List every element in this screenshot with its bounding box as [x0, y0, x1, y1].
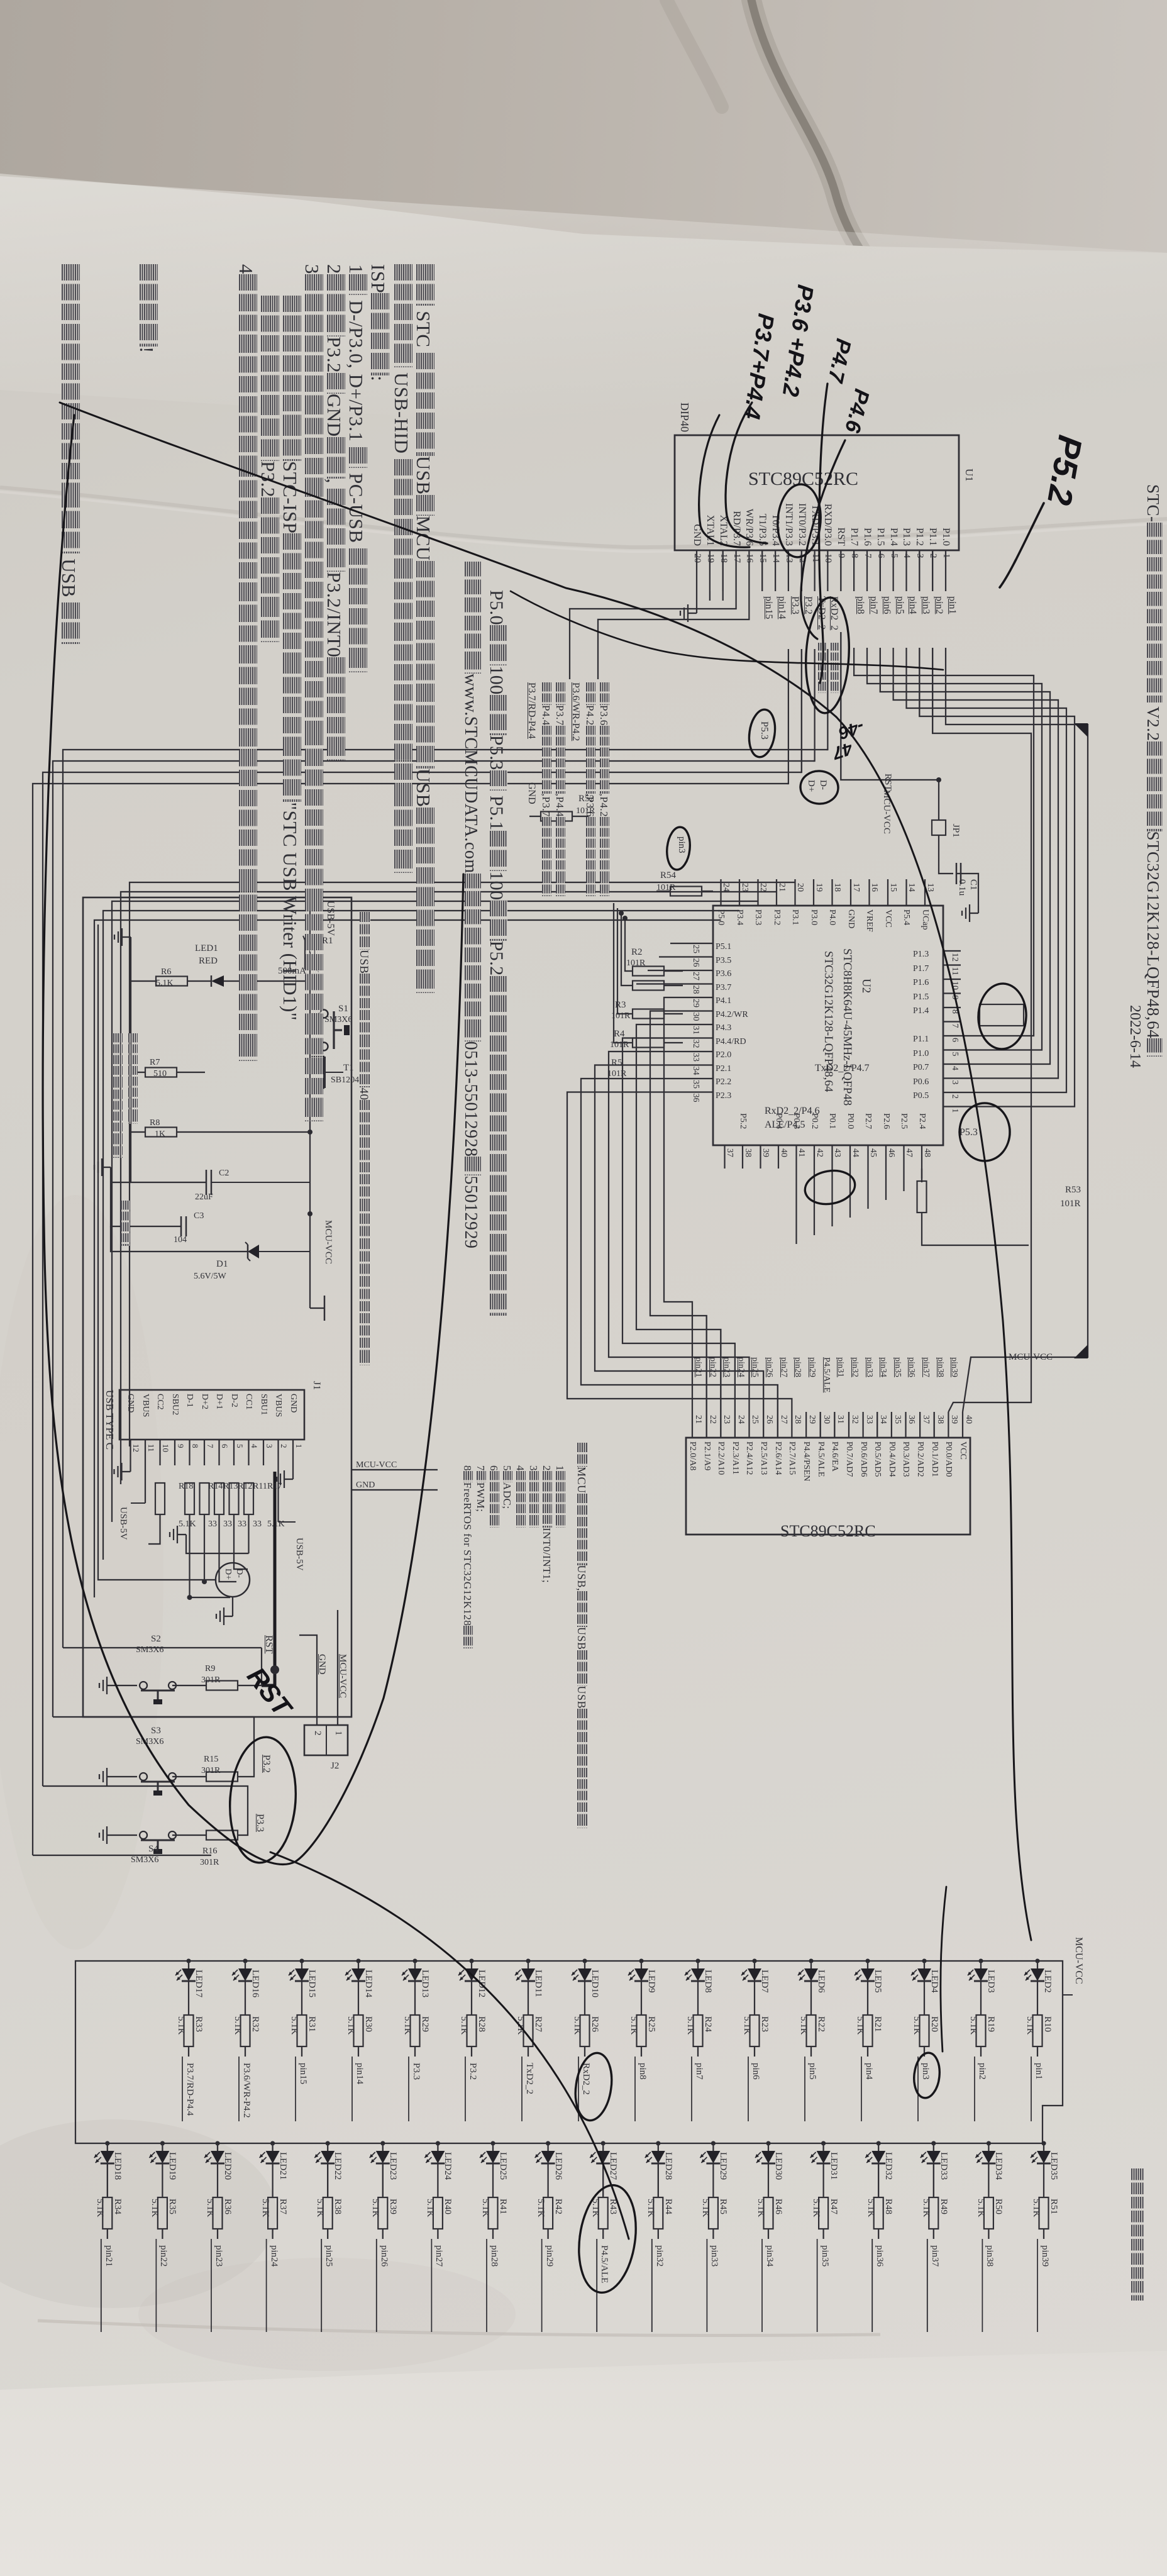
- node pin23 led: [213, 2245, 224, 2267]
- node pin23: [211, 2239, 212, 2332]
- node TxD2_2 led: [524, 2063, 534, 2094]
- capacitor C2 22uF: [211, 1182, 310, 1183]
- LED3 label: [985, 1970, 996, 1993]
- R12 label: [238, 1482, 253, 1492]
- features item 8: [461, 1465, 473, 1648]
- node MCU-VCC leds: [1073, 1937, 1084, 1984]
- U2 pin12: [949, 953, 960, 962]
- node USB-5V J1b: [118, 1507, 128, 1540]
- pen oval around RxD2_2/TxD2_2 nets: [803, 596, 852, 714]
- resistor R9 301R: [206, 1681, 238, 1690]
- J1 refdes: [311, 1381, 322, 1390]
- LED1 label: [195, 943, 218, 954]
- U2 pin28: [690, 985, 700, 994]
- resistor R40 5.1K: [433, 2197, 443, 2229]
- resistor R11 33 on D-2: [230, 1483, 239, 1514]
- LED LED15: [299, 1958, 304, 1963]
- U2 pin6: [949, 1038, 960, 1042]
- box B pins 21-40 stubs: [962, 1412, 963, 1438]
- node pin39: [1037, 2239, 1038, 2332]
- mcu U1 part B box STC89C52RC pins21-40: [686, 1438, 970, 1535]
- node pin1 led: [1033, 2063, 1044, 2080]
- U2 pin16: [870, 883, 880, 892]
- R18 label: [179, 1482, 194, 1492]
- node pin3 led: [920, 2063, 931, 2080]
- node MCU-VCC power: [323, 1220, 333, 1264]
- J1 package label: [103, 1390, 116, 1450]
- pen wavy underline P5.0 line: [511, 591, 943, 670]
- U1 pin3 label P1.2: [914, 528, 925, 546]
- wire P3.3 net: [238, 1814, 248, 1835]
- resistor R53 101R: [921, 1169, 922, 1179]
- thick RST wire: [262, 1472, 275, 1685]
- resistor R18 5.1K on CC2: [155, 1483, 165, 1514]
- box B pin26 label: [758, 1441, 768, 1475]
- transistor T1 SB1204: [323, 1057, 326, 1088]
- node P5.3 label: [758, 721, 770, 740]
- node pin33 led: [709, 2245, 719, 2267]
- jumper JP1: [932, 820, 946, 835]
- T1 label: [343, 1063, 354, 1074]
- resistor R3 101R: [633, 981, 664, 991]
- node pin29: [541, 2239, 543, 2332]
- R15 label: [204, 1755, 218, 1765]
- handwriting P3.7+P4.4: [738, 312, 779, 421]
- connector J1 USB TYPE C box: [119, 1390, 304, 1440]
- J1 pin2 VBUS: [274, 1394, 284, 1417]
- U2 pin8: [949, 1009, 960, 1014]
- label full color LED title: [1128, 2168, 1144, 2301]
- junction dots D lines: [202, 1579, 207, 1584]
- node GND stub: [356, 1480, 375, 1491]
- node pin27 led: [433, 2245, 444, 2267]
- pen oval around RxD2_2 U2: [802, 1167, 858, 1207]
- LED LED24: [436, 2141, 440, 2145]
- U2 pin44: [850, 1148, 860, 1157]
- box B pin36 label: [901, 1441, 911, 1477]
- node pin37 led: [929, 2245, 940, 2267]
- U2 pin41: [797, 1148, 807, 1157]
- wire MCU-VCC rail LED row 1: [88, 1961, 1063, 1995]
- bus X1 four vertical wires: [63, 750, 827, 1648]
- R26 label: [589, 2016, 600, 2032]
- R40 label: [442, 2199, 453, 2214]
- paper light band: [0, 176, 1167, 465]
- resistor R34 5.1K: [102, 2197, 112, 2229]
- node pin35 boxB: [892, 1357, 902, 1377]
- node USB-5V J1a: [294, 1538, 304, 1571]
- R19 label: [985, 2016, 996, 2032]
- resistor R52 101R: [541, 812, 572, 821]
- node P3.2: [465, 2057, 466, 2121]
- switch S1 SM3X6: [310, 1013, 319, 1014]
- R41 label: [497, 2199, 508, 2214]
- node pin21 led: [103, 2245, 114, 2267]
- wire U1 pin2 loop to box B pin39: [932, 648, 1031, 1412]
- U2 pin45: [868, 1148, 878, 1157]
- pen stroke big loop right: [296, 874, 463, 1862]
- features item 3: [527, 1465, 539, 1528]
- box B pin24 label: [730, 1441, 740, 1475]
- LED32 label: [883, 2152, 893, 2180]
- resistor R50 5.1K: [984, 2197, 993, 2229]
- node pin24 boxB: [736, 1357, 746, 1377]
- resistor R6 5.1K: [156, 977, 187, 986]
- LED LED3: [978, 1958, 983, 1963]
- U2 pin21: [777, 883, 787, 892]
- U2 pin18: [832, 883, 843, 892]
- node P3.6/WR-P4.2 led: [241, 2063, 252, 2118]
- U1 package DIP40: [678, 402, 691, 432]
- instructions line8: [257, 296, 280, 642]
- R34 label: [112, 2199, 123, 2214]
- LED15 label: [306, 1970, 317, 1997]
- features item 1: [553, 1465, 566, 1528]
- node pin22 led: [158, 2245, 169, 2267]
- U1 pin14 label T0/P3.4: [770, 514, 781, 546]
- instructions line1: [412, 264, 435, 993]
- wire from D circle to bus: [98, 924, 216, 1580]
- wire bundle U2 right pins loop to box B: [921, 1169, 922, 1182]
- resistor R36 5.1K: [213, 2197, 223, 2229]
- LED LED14: [356, 1958, 360, 1963]
- LED LED22: [326, 2141, 330, 2145]
- R48 label: [883, 2199, 893, 2214]
- node pin21 boxB: [693, 1357, 703, 1377]
- pen oval around P5.3: [746, 708, 778, 759]
- LED28 label: [663, 2152, 673, 2180]
- node MCU-VCC stub: [356, 1460, 397, 1470]
- node MCU-VCC label tick: [324, 1296, 325, 1321]
- LED10 label: [589, 1970, 600, 1997]
- node pin4 led: [863, 2063, 874, 2080]
- J2 MCU-VCC label: [337, 1654, 348, 1698]
- box B pin38 label: [929, 1441, 939, 1477]
- U2 pin9: [949, 996, 960, 1000]
- box B pin28 label: [787, 1441, 797, 1475]
- node P3.6/WR-P4.2: [238, 2057, 240, 2121]
- U2 pin36: [690, 1094, 700, 1102]
- node pin4: [907, 596, 919, 614]
- text power off note: [126, 1033, 138, 1124]
- U1 pin15 label T1/P3.5: [756, 514, 768, 546]
- resistor R38 5.1K: [323, 2197, 333, 2229]
- J1 pin3 SBU1: [258, 1394, 268, 1415]
- handwriting P4.7: [822, 336, 856, 385]
- node pin38 boxB: [935, 1357, 945, 1377]
- box B pin25 label: [744, 1441, 755, 1475]
- LED LED26: [546, 2141, 550, 2145]
- wires U1 pins16-17 staircase to P3.6/P3.7 labels: [598, 591, 749, 679]
- ground bottom power: [102, 1167, 111, 1168]
- label P3.6/WR-P4.2: [570, 682, 581, 741]
- wires U1 pins18-19 stubs: [722, 591, 724, 601]
- R2 label: [631, 947, 643, 958]
- J1 pin1 GND: [288, 1394, 298, 1413]
- LED20 label: [222, 2152, 233, 2180]
- U2 pin17: [851, 883, 861, 892]
- LED24 label: [442, 2152, 453, 2180]
- LED LED19: [160, 2141, 165, 2145]
- pen stroke to pin3 oval: [941, 1887, 946, 2051]
- node pin34: [761, 2239, 763, 2332]
- node pin3: [920, 596, 931, 614]
- LED LED21: [270, 2141, 275, 2145]
- U2 pin3: [949, 1080, 960, 1085]
- node pin3: [917, 2057, 919, 2121]
- resistor R39 5.1K: [378, 2197, 387, 2229]
- ground S3: [107, 1776, 116, 1777]
- U1 pin9 label RST: [835, 528, 846, 546]
- R9 label: [205, 1664, 215, 1674]
- bus X1 risers to buttons: [63, 1647, 262, 1648]
- handwriting P5.2: [1039, 432, 1090, 508]
- R54 label: [660, 870, 676, 881]
- U2 pin25: [690, 945, 700, 953]
- switch S2 SM3X6: [169, 1682, 176, 1689]
- box B pin34 label: [872, 1441, 882, 1477]
- node pin26: [376, 2239, 377, 2332]
- pen oval around P5.3 U2: [960, 1103, 1010, 1161]
- U2 pin10: [949, 981, 960, 990]
- node TxD2_2: [816, 596, 827, 630]
- JP1 label: [950, 824, 961, 838]
- LED33 label: [938, 2152, 949, 2180]
- LED LED28: [656, 2141, 660, 2145]
- box B pin35 label: [887, 1441, 897, 1477]
- R22 label: [816, 2016, 826, 2032]
- U2 pin33: [690, 1053, 700, 1062]
- J1 pin7 D+2: [199, 1394, 209, 1409]
- U2 pin47: [904, 1148, 914, 1157]
- ground power rail left: [122, 936, 131, 938]
- node pin28 led: [489, 2245, 499, 2267]
- U2 pin4: [949, 1066, 960, 1070]
- R10 label: [1042, 2016, 1053, 2032]
- node RST btn: [263, 1635, 274, 1653]
- R24 label: [702, 2016, 713, 2032]
- wires U1 pins10-15 to bus X1: [826, 649, 827, 750]
- node P3.3: [408, 2057, 409, 2121]
- node pin29 boxB: [807, 1357, 817, 1377]
- LED12 label: [476, 1970, 487, 1997]
- node pin27: [431, 2239, 432, 2332]
- box B pin29 label: [801, 1441, 811, 1481]
- resistor R2 101R: [633, 967, 664, 976]
- resistor R43 5.1K: [599, 2197, 608, 2229]
- node pin14: [351, 2057, 353, 2121]
- U2 pin43: [832, 1148, 843, 1157]
- R16 label: [202, 1846, 217, 1857]
- U1 pin13 label INT1/P3.3: [783, 503, 794, 546]
- U2 pin15: [888, 883, 898, 892]
- LED LED34: [987, 2141, 991, 2145]
- instructions line4: [345, 264, 368, 672]
- LED5 label: [872, 1970, 883, 1993]
- resistor R54 101R: [670, 887, 702, 896]
- node pin23 boxB: [721, 1357, 731, 1377]
- R1 label: [322, 936, 333, 947]
- instructions line9: [235, 264, 258, 1061]
- resistor R31 5.1K: [297, 2015, 307, 2046]
- node pin8: [855, 596, 866, 614]
- LED LED9: [639, 1958, 643, 1963]
- corner wedge left: [1074, 723, 1088, 737]
- U1 pin2 label P1.1: [927, 528, 938, 546]
- instructions line5: [323, 264, 346, 760]
- node pin38 led: [984, 2245, 995, 2267]
- U2 pin1: [949, 1109, 960, 1113]
- R36 label: [222, 2199, 233, 2214]
- node pin33 boxB: [864, 1357, 874, 1377]
- node pin7: [868, 596, 879, 614]
- C1 label: [968, 879, 978, 891]
- ground at J1 pin12: [130, 1465, 131, 1472]
- node pin27 boxB: [778, 1357, 788, 1377]
- LED22 label: [332, 2152, 343, 2180]
- R42 label: [553, 2199, 563, 2214]
- U2 pin13: [925, 883, 935, 892]
- node pin31 boxB: [835, 1357, 845, 1377]
- R4 label: [614, 1029, 625, 1040]
- U1 pin16 label WR/P3.6: [743, 509, 755, 546]
- J1 pin5 D-2: [229, 1394, 239, 1407]
- U1 pin7 label P1.6: [861, 528, 873, 546]
- label P3.7/RD-P4.4: [526, 682, 537, 739]
- zener D1 5.6V/5W: [259, 1251, 310, 1252]
- node pin7 led: [694, 2063, 704, 2080]
- LED14 label: [363, 1970, 373, 1997]
- R27 label: [533, 2016, 543, 2032]
- wire RST net: [238, 1648, 262, 1685]
- wire MCU-VCC stub into box: [351, 1469, 438, 1470]
- node pin24 led: [268, 2245, 279, 2267]
- J1 pin8 D-1: [185, 1394, 195, 1407]
- node pin28: [486, 2239, 487, 2332]
- node pin36: [871, 2239, 873, 2332]
- node pin5: [894, 596, 905, 614]
- LED34 label: [993, 2152, 1004, 2180]
- op U1 box STC89C52RC (DIP40 half A): [675, 435, 959, 550]
- junction dots on rail: [307, 979, 312, 984]
- node pin22 boxB: [707, 1357, 717, 1377]
- U1 pin10 label RXD/P3.0: [822, 504, 833, 546]
- LED11 label: [533, 1970, 543, 1997]
- LED LED2: [1035, 1958, 1039, 1963]
- resistor R22 5.1K: [807, 2015, 816, 2046]
- resistor R27 5.1K: [524, 2015, 533, 2046]
- node RST label: [882, 774, 893, 791]
- net label box TxD2_2: [980, 1004, 1024, 1026]
- staircase bundle U2 bottom pins to box B / LED nets: [664, 997, 692, 1412]
- LED LED35: [1041, 2141, 1046, 2145]
- box B pin22 label: [702, 1441, 712, 1470]
- node pin29 led: [544, 2245, 555, 2267]
- LED31 label: [828, 2152, 839, 2180]
- R52 label: [578, 794, 594, 804]
- node pin2: [974, 2057, 975, 2121]
- pen tail P5.2: [1000, 503, 1044, 587]
- resistor R26 5.1K: [580, 2015, 590, 2046]
- text speed discharge: [118, 1201, 131, 1246]
- R20 label: [929, 2016, 939, 2032]
- resistor R13 33 on D+2: [200, 1483, 209, 1514]
- U2 pin24: [721, 883, 731, 892]
- LED LED6: [809, 1958, 813, 1963]
- R45 label: [717, 2199, 728, 2214]
- J1 pin12 GND: [126, 1394, 136, 1413]
- R6 label: [161, 967, 171, 977]
- instructions line11: [57, 264, 80, 644]
- node pin36 led: [874, 2245, 885, 2267]
- LED18 label: [112, 2152, 123, 2180]
- pen tail P3.7+P4.4: [699, 415, 749, 547]
- LED LED10: [582, 1958, 587, 1963]
- U2 pin35: [690, 1080, 700, 1089]
- LED25 label: [497, 2152, 508, 2180]
- R46 label: [773, 2199, 783, 2214]
- node pin39 led: [1039, 2245, 1050, 2267]
- LED29 label: [717, 2152, 728, 2180]
- resistor R25 5.1K: [637, 2015, 646, 2046]
- resistor R51 5.1K: [1039, 2197, 1049, 2229]
- features item 4: [514, 1465, 526, 1528]
- handwriting RST: [241, 1662, 297, 1722]
- box B title: [780, 1522, 876, 1541]
- node circle D- D+: [216, 1563, 250, 1597]
- ground CC1/SBU: [177, 1534, 186, 1535]
- U2 pin30: [690, 1013, 700, 1021]
- U2 right pins 37-48: [921, 1145, 922, 1169]
- ground near D circle: [224, 1616, 233, 1617]
- resistor R44 5.1K: [653, 2197, 663, 2229]
- wire MCU-VCC output: [310, 1307, 324, 1309]
- R39 label: [387, 2199, 398, 2214]
- U2 pin27: [690, 972, 700, 980]
- S3 label: [151, 1726, 161, 1736]
- node pin6 led: [750, 2063, 761, 2080]
- node pin14: [776, 596, 787, 619]
- U2 pin19: [814, 883, 824, 892]
- J2 GND label: [316, 1654, 327, 1675]
- node pin25 boxB: [750, 1357, 760, 1377]
- box B pin27 label: [773, 1441, 783, 1475]
- node pin1: [946, 596, 958, 614]
- LED LED17: [186, 1958, 191, 1963]
- wire U1 pin1 MCU-VCC loop to box B pin40: [946, 648, 1088, 1412]
- node MCU-VCC at boxB: [1009, 1352, 1053, 1363]
- resistor R46 5.1K: [764, 2197, 773, 2229]
- features item 2: [540, 1465, 553, 1583]
- LED LED7: [752, 1958, 756, 1963]
- resistor R41 5.1K: [489, 2197, 498, 2229]
- node pin25 led: [323, 2245, 334, 2267]
- node pin35: [817, 2239, 818, 2332]
- resistor R10 5.1K: [1033, 2015, 1043, 2046]
- U2 part name 1: [840, 948, 854, 1106]
- wire RST net from U1 pin9 to JP1 and C1: [841, 632, 939, 820]
- pen oval around pin3 led: [912, 2051, 941, 2099]
- J1 pin4 CC1: [244, 1394, 254, 1410]
- R43 label: [607, 2199, 618, 2214]
- pen stroke long A1: [60, 402, 836, 717]
- S1 label: [338, 1004, 348, 1014]
- resistor R33 5.1K: [184, 2015, 194, 2046]
- U2 pin11: [949, 967, 960, 975]
- R49 label: [938, 2199, 949, 2214]
- LED LED31: [821, 2141, 826, 2145]
- node pin28 boxB: [792, 1357, 802, 1377]
